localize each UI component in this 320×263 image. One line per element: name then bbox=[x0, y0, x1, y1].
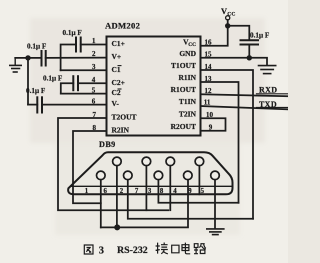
cap C5 down to GND wire bbox=[248, 45, 250, 58]
pin 1 wire bbox=[81, 44, 107, 46]
svg-text:DB9: DB9 bbox=[99, 140, 116, 149]
pin 14 wire T1OUT down right side bbox=[201, 70, 254, 219]
svg-text:16: 16 bbox=[205, 39, 213, 47]
caption 口 glyph bbox=[172, 245, 179, 253]
svg-text:V: V bbox=[221, 7, 227, 16]
svg-text:2: 2 bbox=[92, 50, 96, 58]
IC pin labels left bbox=[112, 39, 137, 135]
ground G1 bbox=[14, 58, 16, 65]
svg-text:ADM202: ADM202 bbox=[105, 21, 140, 31]
tie wire pins 1-6-4 bbox=[101, 180, 188, 228]
pin 13 wire R1IN down bbox=[201, 82, 239, 203]
wire C2 to pin 2 bbox=[46, 57, 107, 59]
svg-text:13: 13 bbox=[205, 75, 213, 83]
caption: 图3 RS-232 接口电路 bbox=[84, 245, 93, 254]
svg-text:14: 14 bbox=[205, 63, 213, 71]
DB9 pin numbers bbox=[85, 188, 205, 195]
svg-text:4: 4 bbox=[173, 188, 177, 195]
right pin numbers bbox=[204, 39, 214, 132]
caption 接 glyph bbox=[156, 243, 168, 254]
capacitor value labels bbox=[26, 29, 270, 95]
svg-text:1: 1 bbox=[85, 188, 89, 195]
svg-text:6: 6 bbox=[103, 188, 107, 195]
junction dot tie wire pin6 bbox=[114, 224, 120, 230]
svg-text:5: 5 bbox=[201, 188, 205, 195]
svg-text:0.1μ F: 0.1μ F bbox=[27, 42, 47, 50]
pin 16 wire bbox=[201, 20, 228, 46]
ground G3 bbox=[207, 229, 224, 235]
svg-text:T1OUT: T1OUT bbox=[171, 61, 196, 70]
ground wire left + pin 2 wire bbox=[15, 57, 41, 59]
svg-text:C1+: C1+ bbox=[112, 39, 125, 48]
overbars for C1- and C2- bbox=[118, 65, 122, 67]
IC U1 ADM202 body bbox=[107, 37, 201, 136]
Vcc terminal circle bbox=[226, 16, 230, 20]
svg-text:8: 8 bbox=[92, 124, 96, 132]
pin 6 wire bbox=[42, 104, 107, 106]
wire C4 bbox=[28, 104, 37, 106]
pin 4 wire bbox=[78, 82, 107, 84]
pin 12 wire R1OUT to RXD bbox=[201, 94, 289, 96]
DB9 stem pin9 bbox=[198, 166, 200, 195]
svg-text:R1IN: R1IN bbox=[178, 73, 196, 82]
svg-text:RXD: RXD bbox=[259, 85, 277, 94]
svg-text:C2+: C2+ bbox=[112, 78, 125, 87]
svg-text:R1OUT: R1OUT bbox=[171, 85, 196, 94]
pin 15 wire GND bbox=[201, 58, 268, 65]
svg-text:CC: CC bbox=[227, 11, 235, 17]
svg-text:9: 9 bbox=[188, 188, 192, 195]
left pin numbers bbox=[92, 37, 97, 132]
svg-text:T2IN: T2IN bbox=[179, 109, 197, 118]
svg-text:3: 3 bbox=[92, 63, 96, 71]
svg-text:T1IN: T1IN bbox=[179, 97, 197, 106]
svg-text:0.1μ F: 0.1μ F bbox=[63, 29, 83, 37]
svg-text:11: 11 bbox=[204, 99, 211, 107]
pin 3 wire bbox=[61, 69, 107, 71]
svg-text:3: 3 bbox=[99, 245, 104, 256]
svg-text:7: 7 bbox=[92, 111, 96, 119]
svg-text:R2OUT: R2OUT bbox=[171, 122, 196, 131]
capacitor C4 plates bbox=[37, 97, 42, 112]
vertical from ground junction down to C4 bbox=[27, 58, 29, 105]
DB9 inner strip line bbox=[71, 185, 232, 187]
svg-text:0.1μ F: 0.1μ F bbox=[250, 31, 270, 39]
svg-text:C1: C1 bbox=[112, 65, 121, 74]
svg-text:15: 15 bbox=[205, 51, 213, 59]
caption 电 glyph bbox=[182, 243, 190, 254]
pin 5 wire bbox=[61, 93, 107, 95]
capacitor C1 plates bbox=[76, 38, 81, 52]
svg-text:V-: V- bbox=[112, 99, 120, 108]
wire C1 left to pin3 bbox=[61, 45, 76, 71]
Vcc branch to cap C5 bbox=[228, 26, 250, 40]
DB9 stem pin1 down to tie wire bbox=[100, 180, 102, 228]
DB9 pin circles row1 (1-5) bbox=[97, 171, 220, 180]
svg-text:4: 4 bbox=[92, 76, 96, 84]
caption 路 glyph bbox=[194, 243, 206, 254]
svg-text:CC: CC bbox=[188, 42, 196, 48]
capacitor C5 plates bbox=[241, 40, 259, 44]
TXD underline bbox=[257, 107, 289, 109]
wire C3 left to pin 5 bbox=[61, 83, 74, 93]
DB9 stem pin3 down then right to pin13 vert bbox=[158, 180, 238, 203]
pin 8 wire R2IN down bbox=[73, 131, 107, 203]
DB9 stem pin8 bbox=[169, 166, 171, 211]
svg-text:8: 8 bbox=[160, 188, 164, 195]
capacitor C3 plates bbox=[73, 76, 78, 90]
DB9 stem pin7 bbox=[145, 166, 147, 211]
svg-text:0.1μ F: 0.1μ F bbox=[43, 75, 63, 83]
junction dot C5/GND bbox=[247, 55, 252, 60]
pin 11 wire T1IN to TXD bbox=[201, 106, 289, 109]
DB9 stem pin2 down then right to pin14 vert bbox=[128, 180, 253, 219]
svg-text:V+: V+ bbox=[112, 52, 122, 61]
svg-text:TXD: TXD bbox=[259, 100, 277, 109]
pin10-pin9 loopback bbox=[201, 118, 226, 131]
DB9 stem pin6 bbox=[116, 166, 118, 228]
svg-text:12: 12 bbox=[205, 87, 213, 95]
pin 7 wire T2OUT down to DB9 area bbox=[58, 118, 168, 210]
RXD underline bbox=[257, 93, 289, 95]
IC pin labels right bbox=[171, 37, 197, 130]
svg-text:10: 10 bbox=[206, 111, 214, 119]
svg-text:1: 1 bbox=[92, 37, 96, 45]
caption 图 glyph bbox=[84, 245, 93, 254]
junction dot left ground bbox=[25, 55, 30, 60]
capacitor C2 plates bbox=[42, 51, 46, 66]
DB9 pin circles row2 (6-9) bbox=[113, 157, 204, 166]
ground G2 bbox=[259, 66, 276, 74]
DB9 connector outline bbox=[68, 152, 232, 194]
svg-text:R2IN: R2IN bbox=[112, 126, 130, 135]
svg-text:6: 6 bbox=[92, 97, 96, 105]
svg-text:0.1μ F: 0.1μ F bbox=[26, 87, 46, 95]
svg-text:7: 7 bbox=[135, 188, 139, 195]
svg-text:GND: GND bbox=[179, 49, 196, 58]
svg-text:2: 2 bbox=[120, 188, 124, 195]
svg-text:3: 3 bbox=[148, 188, 152, 195]
junction dot Vcc bbox=[225, 23, 230, 28]
svg-text:RS-232: RS-232 bbox=[117, 245, 148, 256]
svg-text:5: 5 bbox=[92, 86, 96, 94]
svg-text:9: 9 bbox=[209, 123, 213, 131]
DB9 stem pin5 to ground bbox=[214, 180, 216, 229]
svg-text:T2OUT: T2OUT bbox=[112, 113, 137, 122]
